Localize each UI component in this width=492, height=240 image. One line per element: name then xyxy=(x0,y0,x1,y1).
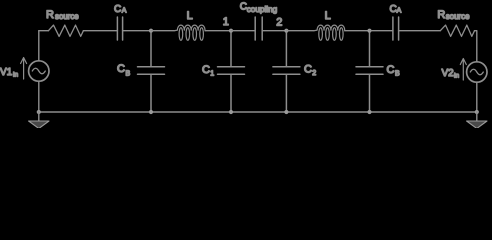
ground rail xyxy=(39,111,477,113)
wire V2 bottom lead xyxy=(476,82,478,112)
ground symbol right stub xyxy=(476,112,478,121)
svg-text:in: in xyxy=(13,72,18,79)
capacitor C_B left shunt xyxy=(138,33,165,112)
junction dot V1 rail xyxy=(37,110,41,114)
wire resistor to C_A xyxy=(83,30,117,32)
wire top left to resistor xyxy=(39,30,49,32)
wire node to C_A right xyxy=(370,30,393,32)
capacitor C_coupling xyxy=(255,17,262,40)
svg-text:1: 1 xyxy=(210,71,214,78)
svg-text:1: 1 xyxy=(223,16,229,28)
svg-text:in: in xyxy=(454,73,459,80)
svg-text:2: 2 xyxy=(312,70,316,77)
svg-text:source: source xyxy=(55,12,79,21)
resistor R_source right xyxy=(440,25,474,36)
junction dot V2 rail xyxy=(475,110,479,114)
wire inductor to node 1 xyxy=(205,30,231,32)
capacitor C_A left xyxy=(117,17,122,40)
svg-text:R: R xyxy=(46,9,54,21)
svg-text:V2: V2 xyxy=(442,68,455,79)
wire C_A to node xyxy=(123,30,151,32)
wire inductor to node C_B right xyxy=(345,30,370,32)
node dot top C_B left xyxy=(149,29,153,33)
capacitor C_A right xyxy=(393,17,399,40)
svg-text:A: A xyxy=(397,8,402,15)
V1 polarity arrow xyxy=(21,58,27,80)
wire C_A to resistor right xyxy=(399,30,441,32)
junction dot C_B right rail xyxy=(367,110,371,114)
svg-text:C: C xyxy=(202,64,210,76)
ground symbol left xyxy=(29,121,49,129)
source V1 xyxy=(29,61,49,81)
V1 sine symbol xyxy=(32,68,45,74)
svg-text:R: R xyxy=(437,9,445,21)
junction dot C_1 rail xyxy=(229,110,233,114)
V2 polarity arrow xyxy=(460,59,466,81)
resistor R_source left xyxy=(48,25,83,36)
wire node 2 to inductor right xyxy=(286,30,313,32)
svg-text:L: L xyxy=(187,10,193,22)
capacitor C_2 shunt xyxy=(273,33,300,112)
ground symbol right xyxy=(467,121,487,129)
node 1 dot xyxy=(229,29,233,33)
svg-text:C: C xyxy=(387,64,395,76)
svg-text:C: C xyxy=(304,64,312,76)
capacitor C_1 shunt xyxy=(218,33,245,112)
wire node 1 to C_coupling xyxy=(231,30,255,32)
svg-text:coupling: coupling xyxy=(247,5,278,14)
wire C_coupling to node 2 xyxy=(262,30,286,32)
svg-text:C: C xyxy=(114,4,121,15)
wire resistor to V2 corner xyxy=(475,31,477,62)
capacitor C_B right shunt xyxy=(356,33,383,112)
svg-text:B: B xyxy=(395,71,400,78)
svg-text:source: source xyxy=(446,12,470,21)
inductor L right xyxy=(314,25,345,40)
node dot top C_B right xyxy=(367,29,371,33)
source V2 xyxy=(467,62,487,82)
inductor L left xyxy=(174,25,205,40)
svg-text:C: C xyxy=(117,63,125,75)
ground symbol left stub xyxy=(38,112,40,121)
wire V1 top lead xyxy=(38,31,40,61)
svg-text:B: B xyxy=(126,70,131,77)
svg-text:V1: V1 xyxy=(0,67,13,78)
svg-text:2: 2 xyxy=(276,17,282,29)
junction dot C_2 rail xyxy=(284,110,288,114)
junction dot C_B left rail xyxy=(149,110,153,114)
wire V1 bottom lead xyxy=(38,81,40,112)
svg-text:L: L xyxy=(325,10,331,22)
svg-text:A: A xyxy=(122,8,127,15)
node 2 dot xyxy=(284,29,288,33)
V2 sine symbol xyxy=(470,69,483,75)
wire node to inductor xyxy=(151,30,174,32)
